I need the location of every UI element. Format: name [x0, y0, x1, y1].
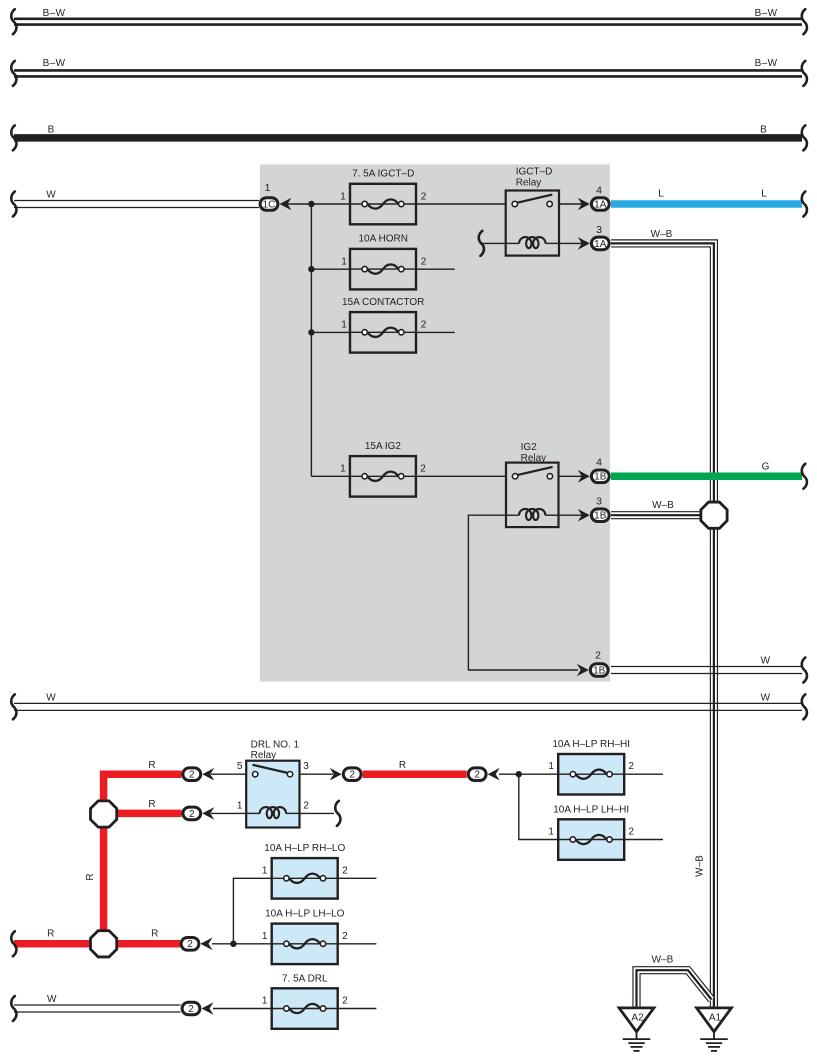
wire relay IG2 coil left down to connector 1B pin 2 — [468, 515, 578, 670]
arrow into connector 2 (H-LP LO feed) — [201, 938, 213, 951]
wire W into connector 2 (DRL fuse feed) — [14, 1005, 181, 1012]
connector 2 (H-LP HI feed) — [468, 768, 486, 781]
svg-text:4: 4 — [596, 457, 602, 469]
svg-text:W: W — [47, 994, 57, 1005]
wire fuse bus vertical — [310, 204, 312, 476]
break symbol left end wire W full row — [11, 694, 16, 719]
svg-text:A1: A1 — [709, 1013, 722, 1024]
wire R (red) octagon J1 to connector 2 (pin 5 feed) — [104, 774, 182, 802]
svg-text:1A: 1A — [594, 199, 607, 210]
wire fuse CONTACTOR pin 2 stub — [416, 331, 455, 333]
svg-text:7. 5A IGCT–D: 7. 5A IGCT–D — [352, 169, 414, 180]
svg-text:L: L — [658, 189, 664, 200]
svg-text:1: 1 — [548, 761, 554, 772]
break symbol right end wire B-W row 2 — [802, 61, 807, 86]
svg-text:10A H–LP RH–LO: 10A H–LP RH–LO — [264, 843, 345, 854]
svg-text:3: 3 — [303, 761, 309, 772]
svg-text:15A IG2: 15A IG2 — [365, 441, 402, 452]
fuse 10A H-LP RH-HI — [558, 754, 624, 795]
svg-text:DRL NO. 1: DRL NO. 1 — [251, 739, 300, 750]
svg-text:B–W: B–W — [755, 58, 778, 69]
svg-text:10A H–LP RH–HI: 10A H–LP RH–HI — [552, 739, 630, 750]
wire connector 2 to fuse DRL pin 1 — [213, 1008, 272, 1010]
arrow into connector 1B pin 2 — [577, 664, 589, 677]
relay DRL switch contacts — [253, 765, 289, 773]
relay IG2 coil — [506, 514, 519, 516]
wire W from connector 1B pin 2 — [611, 667, 802, 674]
svg-text:1: 1 — [340, 463, 346, 474]
arrow into connector 2 (DRL pin 1) — [202, 807, 214, 820]
wire branch up to fuse H-LP RH-LO pin 1 — [233, 878, 271, 944]
wire W full width row — [14, 703, 802, 710]
svg-text:2: 2 — [189, 770, 195, 781]
arrow into connector 1A pin 3 — [578, 237, 590, 250]
break symbol at relay DRL pin 2 — [335, 801, 340, 826]
svg-text:A2: A2 — [631, 1013, 644, 1024]
svg-text:4: 4 — [596, 184, 602, 196]
svg-text:B–W: B–W — [755, 8, 778, 19]
arrow into connector 1B pin 3 — [578, 509, 590, 522]
svg-text:1B: 1B — [594, 511, 607, 522]
wire R (red) left break to octagon J2 — [14, 940, 92, 948]
svg-text:2: 2 — [421, 191, 427, 202]
svg-text:1A: 1A — [594, 239, 607, 250]
wire bus to HORN fuse pin 1 — [311, 268, 350, 270]
wire relay DRL pin 1 to connector 2 — [211, 812, 246, 814]
svg-text:1B: 1B — [593, 665, 606, 676]
wire bus corner to IG2 fuse pin 1 — [311, 475, 350, 477]
svg-text:Relay: Relay — [251, 750, 277, 761]
fuse 10A H-LP LH-HI — [558, 819, 624, 860]
relay block background (junction block shading) — [260, 164, 610, 681]
svg-text:2: 2 — [421, 256, 427, 267]
relay U1 IGCT-D Relay — [506, 191, 559, 256]
svg-text:15A CONTACTOR: 15A CONTACTOR — [342, 297, 424, 308]
svg-text:10A HORN: 10A HORN — [358, 234, 407, 245]
relay U3 DRL NO. 1 Relay — [246, 761, 299, 828]
connector 1B pin 3 — [591, 509, 609, 522]
connector 1C — [260, 198, 278, 211]
wire B row 3 (solid black) — [14, 134, 802, 142]
svg-text:W–B: W–B — [651, 229, 673, 240]
wire relay DRL pin 5 to connector 2 — [211, 773, 246, 775]
svg-text:3: 3 — [596, 224, 602, 236]
svg-text:IG2: IG2 — [521, 442, 538, 453]
arrow into connector 1C — [280, 198, 292, 211]
svg-text:R: R — [399, 760, 406, 771]
relay IGCT-D switch contacts — [517, 195, 553, 203]
svg-text:B–W: B–W — [43, 58, 66, 69]
svg-text:2: 2 — [595, 650, 601, 662]
svg-text:2: 2 — [188, 1004, 194, 1015]
connector 2 (DRL pin 5) — [183, 768, 201, 781]
connector 2 (DRL pin 1) — [183, 807, 201, 820]
break symbol left end wire B — [11, 125, 16, 150]
junction dot bus at CONTACTOR feed — [308, 329, 314, 335]
svg-text:B–W: B–W — [43, 8, 66, 19]
wire relay IGCT-D coil to break — [481, 242, 506, 244]
svg-text:5: 5 — [237, 761, 243, 772]
wire R (red) octagon J1 down to octagon J2 — [100, 826, 108, 932]
break symbol right end wire G — [802, 464, 807, 489]
svg-text:1: 1 — [341, 256, 347, 267]
arrow into connector 2 (H-LP HI feed) — [488, 768, 500, 781]
fuse 10A HORN — [350, 249, 416, 290]
junction dot H-LP LO branch — [230, 941, 236, 947]
svg-text:1: 1 — [262, 865, 268, 876]
wire relay IG2 switch to connector 1B pin 4 — [559, 475, 583, 477]
fuse 7.5A IGCT-D — [350, 184, 416, 225]
svg-text:W: W — [761, 692, 771, 703]
fuse 7.5A DRL — [272, 988, 338, 1029]
wire B-W row 2 — [14, 70, 802, 76]
ground A2 — [619, 1008, 654, 1051]
wire connector 2 to fuse H-LP LH-LO pin 1 — [212, 943, 272, 945]
wire bus to CONTACTOR fuse pin 1 — [311, 331, 350, 333]
wire R (red) octagon J1 to connector 2 (pin 1 feed) — [116, 810, 182, 818]
svg-text:1: 1 — [265, 182, 271, 194]
wire fuse IG2 pin 2 to relay IG2 switch — [416, 475, 506, 477]
fuse 10A H-LP LH-LO — [272, 924, 338, 965]
wire R (red) between connector 2 pair — [363, 770, 467, 778]
wire relay IGCT-D coil to connector 1A pin 3 — [559, 242, 582, 244]
svg-text:10A H–LP LH–LO: 10A H–LP LH–LO — [265, 909, 345, 920]
break symbol right end wire B — [802, 125, 807, 150]
connector 2 (DRL fuse feed) — [182, 1002, 200, 1015]
svg-text:2: 2 — [342, 996, 348, 1007]
wire W-B branch to ground A2 — [637, 970, 712, 1008]
svg-text:1C: 1C — [263, 199, 276, 210]
svg-text:W–B: W–B — [695, 855, 706, 877]
wire fuse DRL pin 2 stub — [338, 1008, 377, 1010]
svg-text:R: R — [47, 929, 54, 940]
wire fuse IGCT-D pin 2 to relay IGCT-D switch — [416, 203, 506, 205]
connector 1A pin 3 — [591, 237, 609, 250]
wire G (green) from connector 1B pin 4 — [611, 473, 802, 481]
svg-text:1: 1 — [237, 800, 243, 811]
arrow into connector 2 (DRL fuse feed) — [202, 1002, 214, 1015]
wire B-W row 1 — [14, 19, 802, 25]
svg-text:2: 2 — [189, 809, 195, 820]
wire W-B from connector 1B pin 3 to junction octagon — [611, 511, 702, 519]
svg-text:R: R — [151, 929, 158, 940]
wire relay IGCT-D switch to connector 1A pin 4 — [559, 203, 582, 205]
svg-text:1: 1 — [340, 191, 346, 202]
svg-text:R: R — [148, 799, 155, 810]
ground A1 — [697, 1008, 732, 1051]
wire fuse H-LP LH-LO pin 2 stub — [338, 943, 377, 945]
wire connector 2 to fuse H-LP RH-HI pin 1 — [499, 773, 558, 775]
svg-text:IGCT–D: IGCT–D — [516, 167, 553, 178]
wire relay IG2 coil to connector 1B pin 3 — [559, 514, 583, 516]
relay DRL coil — [246, 812, 260, 814]
svg-text:R: R — [85, 873, 96, 880]
wire relay DRL pin 2 to break — [300, 812, 335, 814]
arrow into connector 1B pin 4 — [578, 470, 590, 483]
break symbol left end wire B-W row 2 — [11, 61, 16, 86]
break symbol right end wire L — [802, 192, 807, 217]
svg-text:10A H–LP LH–HI: 10A H–LP LH–HI — [553, 804, 629, 815]
svg-text:2: 2 — [628, 827, 634, 838]
arrow into connector 1A pin 4 — [578, 198, 590, 211]
wire R (red) octagon J2 to connector 2 (H-LP LO feed) — [116, 940, 180, 948]
fuse 10A H-LP RH-LO — [272, 858, 338, 899]
break symbol at relay IGCT-D coil feed — [479, 231, 484, 256]
relay IGCT-D coil — [506, 242, 520, 244]
wire fuse HORN pin 2 stub — [416, 268, 455, 270]
junction dot bus at IGCT-D feed — [308, 201, 314, 207]
svg-text:1: 1 — [262, 931, 268, 942]
svg-text:W: W — [46, 190, 56, 201]
connector 2 (DRL pin 3 out) — [343, 768, 361, 781]
svg-text:G: G — [762, 461, 770, 472]
svg-text:2: 2 — [187, 939, 193, 950]
break symbol left end wire R — [11, 931, 16, 956]
svg-text:W–B: W–B — [652, 500, 674, 511]
break symbol right end wire W (1B pin 2) — [802, 658, 807, 683]
break symbol right end wire B-W row 1 — [802, 9, 807, 34]
svg-text:1: 1 — [341, 320, 347, 331]
svg-text:W: W — [761, 656, 771, 667]
relay U2 IG2 Relay — [506, 463, 559, 527]
wire relay DRL pin 3 to connector 2 — [300, 773, 334, 775]
fuse 15A CONTACTOR — [350, 312, 416, 353]
svg-text:2: 2 — [349, 770, 355, 781]
connector 1B pin 4 — [591, 470, 609, 483]
fuse 15A IG2 — [350, 456, 416, 497]
svg-text:W: W — [46, 692, 56, 703]
junction dot bus at HORN feed — [308, 266, 314, 272]
svg-text:R: R — [148, 760, 155, 771]
svg-text:2: 2 — [303, 800, 309, 811]
wire W into connector 1C — [14, 201, 259, 208]
wire L (blue) from connector 1A pin 4 — [611, 200, 802, 208]
svg-text:1: 1 — [262, 996, 268, 1007]
svg-text:2: 2 — [474, 770, 480, 781]
wire W-B from connector 1A pin 3 down to ground A1 (main run) — [611, 243, 714, 1008]
wire from connector 1C to fuse IGCT-D pin 1 — [286, 203, 350, 205]
wire fuse H-LP LH-HI pin 2 stub — [624, 839, 663, 841]
svg-text:1: 1 — [548, 827, 554, 838]
wire fuse H-LP RH-HI pin 2 stub — [624, 773, 663, 775]
relay IG2 switch contacts — [517, 467, 553, 475]
svg-text:2: 2 — [628, 761, 634, 772]
arrow into connector 2 (DRL pin 5) — [202, 768, 214, 781]
svg-text:W–B: W–B — [652, 955, 674, 966]
break symbol left end wire B-W row 1 — [11, 9, 16, 34]
svg-text:B: B — [760, 125, 767, 136]
svg-text:L: L — [761, 189, 767, 200]
junction octagon J1 (red) — [90, 801, 116, 827]
arrow into connector 2 (DRL pin 3 out) — [330, 768, 342, 781]
svg-text:2: 2 — [421, 320, 427, 331]
svg-text:2: 2 — [342, 865, 348, 876]
junction octagon J2 (red) — [90, 931, 116, 957]
junction octagon W-B — [701, 502, 727, 528]
svg-text:2: 2 — [420, 463, 426, 474]
svg-text:2: 2 — [342, 931, 348, 942]
connector 2 (H-LP LO feed) — [181, 938, 199, 951]
break symbol left end wire W — [11, 192, 16, 217]
svg-text:Relay: Relay — [521, 453, 547, 464]
svg-text:Relay: Relay — [516, 178, 542, 189]
svg-text:7. 5A DRL: 7. 5A DRL — [282, 973, 328, 984]
svg-text:1B: 1B — [594, 472, 607, 483]
svg-text:3: 3 — [596, 496, 602, 508]
connector 1A pin 4 — [591, 198, 609, 211]
break symbol right end wire W full row — [802, 694, 807, 719]
break symbol left end wire W (DRL fuse row) — [11, 996, 16, 1021]
junction dot H-LP HI branch — [516, 771, 522, 777]
connector 1B pin 2 — [590, 664, 608, 677]
wire fuse H-LP RH-LO pin 2 stub — [338, 877, 377, 879]
wire branch down to fuse H-LP LH-HI pin 1 — [519, 774, 558, 839]
svg-text:B: B — [48, 125, 55, 136]
